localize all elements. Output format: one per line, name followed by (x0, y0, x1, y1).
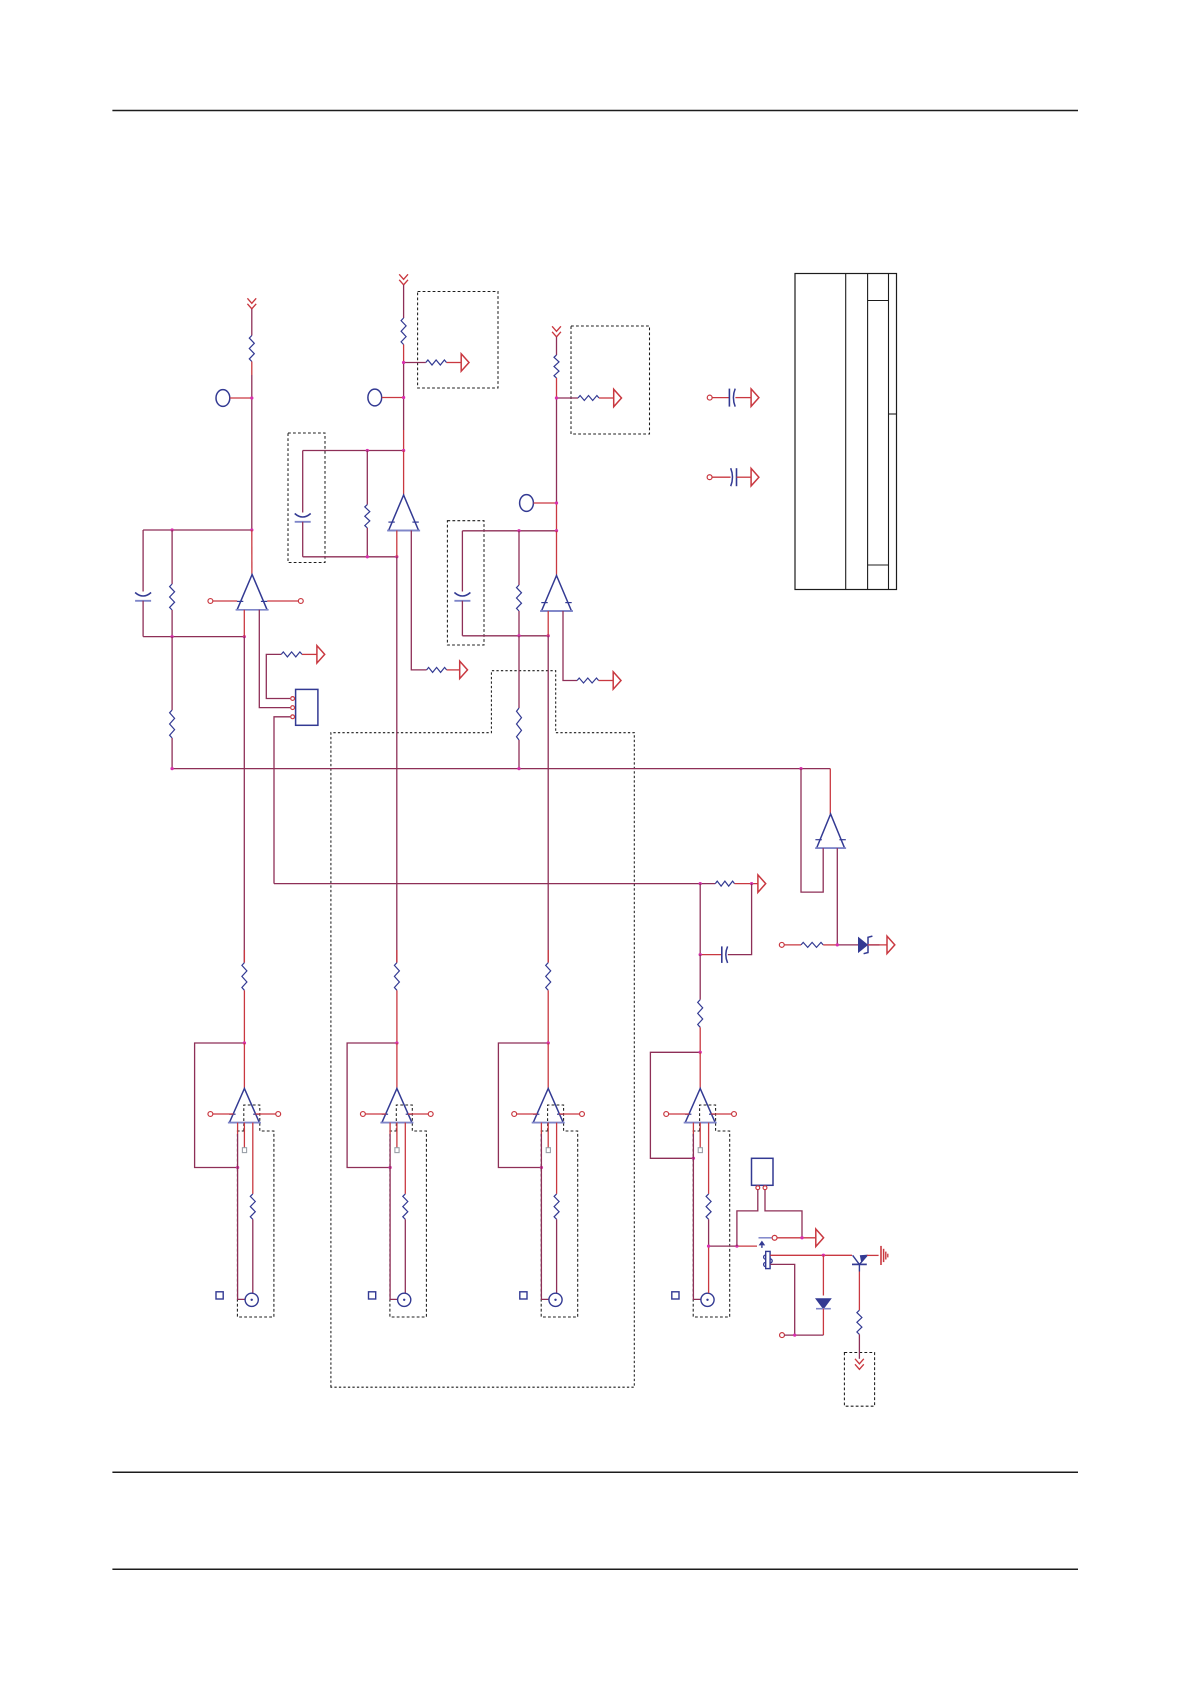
power symbol VCC2 (399, 274, 408, 285)
terminal pin (512, 1112, 537, 1117)
wire (403, 345, 405, 451)
terminal pin (408, 1112, 433, 1117)
op-amp A2 (380, 1089, 413, 1123)
resistor R10 (427, 667, 447, 672)
resistor R6 (170, 584, 175, 610)
wire (709, 1245, 757, 1247)
wire (858, 1334, 860, 1358)
wire loop A4 (650, 1052, 700, 1158)
wire (547, 950, 549, 963)
junction (707, 1244, 739, 1247)
wire node fb2 top (303, 450, 404, 452)
wire (411, 531, 426, 670)
resistor R15 (801, 942, 823, 947)
wire (829, 769, 831, 814)
wire (259, 610, 290, 708)
wire (366, 451, 368, 505)
wire (243, 1043, 245, 1089)
wire bus (172, 768, 830, 770)
wire (403, 285, 405, 318)
wire (557, 397, 579, 399)
dashed box module B (571, 326, 650, 434)
terminal pin (711, 1112, 736, 1117)
wire (518, 531, 520, 585)
wire (822, 1309, 824, 1335)
junction (555, 396, 558, 399)
terminal J2 (368, 389, 382, 406)
wire loop A3 (498, 1043, 548, 1168)
wire (784, 944, 801, 946)
junction (236, 1041, 246, 1169)
dashed box A2 (390, 1105, 427, 1317)
dashed box A3 (541, 1105, 578, 1317)
wire (243, 610, 245, 963)
capacitor C1 (707, 389, 735, 407)
op-amp U3 (387, 495, 420, 531)
wire (858, 1272, 860, 1311)
capacitor C2 (707, 468, 736, 486)
wire loop U5 (801, 769, 823, 893)
current source A1CS (245, 1293, 258, 1306)
resistor A1Ru (242, 963, 247, 991)
dashed enclosure (331, 671, 634, 1387)
wire (382, 397, 404, 399)
capacitor C5 (454, 593, 470, 601)
wire (699, 1027, 701, 1052)
op-amp A4 (684, 1089, 717, 1123)
test point (242, 1123, 246, 1153)
junction (402, 396, 405, 399)
terminal pin (779, 942, 784, 947)
pin (291, 715, 295, 719)
junction (822, 1254, 825, 1257)
junction (692, 1051, 702, 1160)
wire (599, 680, 613, 682)
resistor A4R (706, 1194, 711, 1219)
junction (170, 635, 246, 638)
wire (302, 522, 304, 557)
wire (822, 1255, 824, 1295)
wire (396, 531, 398, 963)
wire (518, 740, 520, 769)
wire (737, 1190, 758, 1247)
wire (447, 669, 460, 671)
power symbol VCC3 (552, 326, 561, 337)
dashed box C5 (447, 521, 484, 645)
wire (518, 611, 520, 636)
wire (708, 1219, 710, 1293)
capacitor C4 (295, 514, 311, 522)
pin (291, 697, 295, 701)
test point (698, 1123, 702, 1153)
junction (793, 1333, 796, 1336)
resistor R13 (517, 708, 522, 740)
ground GND1 (881, 1246, 888, 1265)
diode D1 (816, 1299, 831, 1309)
wire (403, 451, 405, 496)
junction (402, 361, 405, 364)
signal arrow OUT-6 (816, 1229, 824, 1247)
resistor A2R (403, 1194, 408, 1219)
net label square A4 (672, 1292, 679, 1299)
capacitor C6 (722, 946, 728, 963)
resistor R12 (577, 678, 599, 683)
wire (142, 530, 144, 592)
resistor A3R (554, 1194, 559, 1219)
wire node feedback bottom (143, 636, 244, 638)
wire (404, 1219, 406, 1293)
wire (251, 362, 253, 531)
wire (252, 1219, 254, 1293)
junction (170, 767, 802, 770)
junction (366, 555, 399, 558)
bottom horizontal rule 1 (112, 1471, 1078, 1473)
wire (547, 1043, 549, 1089)
junction (517, 529, 558, 532)
wire (404, 362, 426, 364)
terminal pin (780, 1333, 785, 1338)
signal arrow OUT-A (461, 354, 469, 371)
terminal J1 (216, 390, 230, 407)
resistor R16 (698, 1000, 703, 1028)
wire (251, 309, 253, 336)
dashed box module A (418, 292, 498, 389)
wire (302, 653, 317, 655)
junction (800, 1236, 803, 1239)
wire (238, 1123, 246, 1300)
signal arrow OUT-3 (613, 672, 621, 689)
power symbol VCC1 (247, 298, 256, 309)
signal arrow OUT-5 (887, 936, 895, 954)
wire (693, 1123, 701, 1300)
wire (266, 654, 290, 698)
resistor R9 (365, 505, 370, 528)
wire (461, 601, 463, 636)
junction (170, 528, 253, 531)
pin (291, 706, 295, 710)
wire (171, 530, 173, 584)
wire (556, 378, 558, 531)
wire (251, 530, 253, 575)
op-amp A3 (532, 1089, 565, 1123)
wire (396, 950, 398, 963)
wire (784, 1334, 823, 1336)
wire (404, 1123, 406, 1194)
wiper arrow VR1 (759, 1241, 766, 1248)
resistor R7 (170, 710, 175, 738)
connector table block (795, 274, 897, 590)
wire (396, 1043, 398, 1089)
wire (728, 884, 752, 955)
wire node fb3 bottom (462, 635, 548, 637)
bottom horizontal rule 2 (112, 1568, 1078, 1570)
wire (274, 717, 290, 884)
pin (763, 1186, 767, 1190)
resistor R2 (401, 318, 406, 345)
terminal J3 (520, 495, 534, 512)
wire node fb3 top (462, 530, 556, 532)
wire (171, 637, 173, 710)
wire (765, 1190, 802, 1238)
wire (836, 848, 838, 945)
transistor Q1 (852, 1255, 868, 1272)
wire (700, 954, 722, 956)
wire (171, 738, 173, 769)
wire loop A1 (195, 1043, 245, 1168)
wire node feedback top (143, 529, 252, 531)
terminal pin (208, 599, 237, 604)
op-amp A1 (228, 1089, 261, 1123)
signal arrow OUT-B (614, 389, 622, 407)
resistor R11 (517, 585, 522, 611)
wire (735, 883, 758, 885)
signal arrow OUT-4 (758, 875, 766, 893)
junction (250, 396, 253, 399)
wire (142, 601, 144, 637)
resistor R17 (857, 1310, 862, 1334)
signal arrow OUT-1 (317, 646, 325, 664)
power symbol VEE (855, 1359, 864, 1370)
wire (302, 451, 304, 513)
junction (555, 501, 558, 504)
resistor R8 (281, 652, 302, 657)
net label square A3 (520, 1292, 527, 1299)
dashed box C4 (288, 433, 325, 563)
wire (823, 944, 858, 946)
wire net2 (274, 883, 715, 885)
top horizontal rule (112, 110, 1078, 112)
junction (517, 634, 550, 637)
wire (699, 1052, 701, 1088)
wire node fb2 bottom (303, 556, 397, 558)
wire (171, 610, 173, 637)
resistor R1 (249, 336, 254, 362)
wire (699, 884, 701, 955)
resistor R4 (554, 355, 559, 378)
resistor A2Ru (394, 963, 399, 991)
wire (556, 531, 558, 576)
terminal pin (255, 1112, 280, 1117)
current source A3CS (549, 1293, 562, 1306)
wire (533, 502, 556, 504)
test point (546, 1123, 550, 1153)
resistor A1R (250, 1194, 255, 1219)
capacitor C3 (135, 593, 151, 601)
wire (770, 1254, 852, 1256)
junction (366, 449, 406, 452)
wire (556, 337, 558, 355)
signal arrow OUT-D (751, 468, 759, 486)
wire (547, 611, 549, 963)
junction (699, 882, 754, 885)
junction (540, 1041, 550, 1169)
zener diode ZD1 (859, 936, 880, 954)
net label square A1 (216, 1292, 223, 1299)
wire (556, 1123, 558, 1194)
wire (556, 1219, 558, 1293)
pin (756, 1186, 760, 1190)
wire (759, 1237, 772, 1239)
wire (737, 476, 751, 478)
wire (867, 1254, 879, 1256)
op-amp U5 (815, 814, 846, 848)
wire (518, 636, 520, 708)
terminal pin (664, 1112, 689, 1117)
wire (777, 1237, 816, 1239)
current source A4CS (701, 1293, 714, 1306)
wire (541, 1123, 549, 1300)
wire (243, 990, 245, 1043)
dashed box A1 (237, 1105, 274, 1317)
potentiometer VR1 box (752, 1158, 774, 1185)
junction (836, 943, 839, 946)
wire (599, 397, 613, 399)
resistor A3Ru (546, 963, 551, 991)
resistor R3 (426, 360, 447, 365)
signal arrow OUT-2 (460, 661, 468, 679)
wire loop A2 (347, 1043, 397, 1168)
terminal pin (360, 1112, 385, 1117)
wire (547, 990, 549, 1043)
terminal pin (772, 1235, 777, 1240)
wire (708, 1123, 710, 1194)
op-amp U1 (236, 575, 269, 610)
component U2 box (296, 689, 318, 725)
wire (770, 1264, 794, 1335)
terminal pin (267, 599, 303, 604)
dashed box A4 (693, 1105, 730, 1317)
dashed box VEE (844, 1353, 874, 1407)
terminal pin (208, 1112, 233, 1117)
wire (699, 955, 701, 1000)
resistor R14 (715, 881, 734, 886)
wire (366, 528, 368, 557)
signal arrow OUT-C (751, 389, 759, 407)
wire (230, 397, 252, 399)
coil L1 (764, 1251, 773, 1268)
wire (252, 1123, 254, 1194)
net label square A2 (369, 1292, 376, 1299)
wire (735, 397, 751, 399)
wire (396, 990, 398, 1043)
wire (461, 531, 463, 592)
wire (390, 1123, 398, 1300)
wire (868, 944, 887, 946)
junction (388, 1041, 398, 1169)
wire (447, 362, 461, 364)
terminal pin (559, 1112, 584, 1117)
test point (395, 1123, 399, 1153)
wire (243, 950, 245, 963)
current source A2CS (398, 1293, 411, 1306)
op-amp U4 (540, 576, 573, 612)
wire (563, 611, 577, 681)
junction (699, 953, 702, 956)
resistor R5 (578, 396, 599, 401)
